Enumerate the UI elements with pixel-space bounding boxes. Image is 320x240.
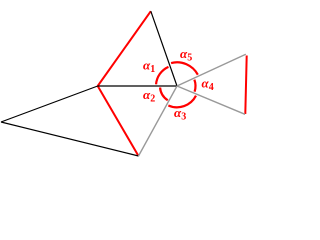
wire: gray edge C to R1 xyxy=(177,54,246,86)
svg-text:α3: α3 xyxy=(174,105,186,123)
wire: black edge Apex to L xyxy=(1,86,98,122)
node C: angle arc alpha1 xyxy=(156,67,168,85)
svg-text:α1: α1 xyxy=(143,58,155,76)
wire: black edge T to C xyxy=(151,11,177,86)
wire: red edge L to B xyxy=(98,86,139,156)
wire: black edge Apex to B xyxy=(1,122,139,156)
svg-text:α4: α4 xyxy=(202,76,214,94)
node C: angle arc alpha3 xyxy=(168,96,196,108)
svg-text:α5: α5 xyxy=(180,46,192,64)
wire: gray edge C to B xyxy=(139,86,178,156)
wire: black edge L to C xyxy=(98,85,177,87)
node C: angle arc alpha5 xyxy=(171,62,198,74)
wire: red edge R1 to R2 xyxy=(245,56,246,115)
wire: gray edge C to R2 xyxy=(177,86,245,114)
wire: red edge T to L xyxy=(98,11,151,86)
svg-text:α2: α2 xyxy=(143,87,155,105)
node C: angle arc alpha2 xyxy=(160,87,168,100)
node C: angle arc alpha4 xyxy=(194,80,195,92)
